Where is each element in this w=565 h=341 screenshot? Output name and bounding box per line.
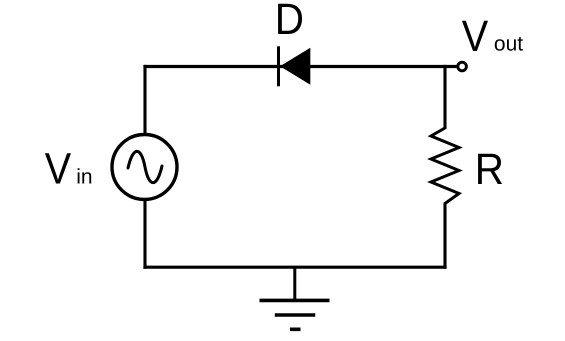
- svg-text:V: V: [462, 12, 489, 61]
- svg-text:in: in: [76, 166, 92, 189]
- resistor R: [431, 128, 459, 204]
- label Vout: [462, 12, 524, 61]
- svg-text:V: V: [45, 145, 72, 194]
- wire right vertical (resistor to bottom wire): [443, 203, 446, 269]
- wire bottom horizontal: [143, 266, 446, 269]
- wire right vertical (top junction to resistor): [443, 65, 446, 129]
- AC source V_in (circle + sine): [112, 135, 177, 200]
- svg-text:D: D: [275, 0, 304, 44]
- svg-text:out: out: [494, 33, 523, 56]
- diode D (cathode bar + triangle): [279, 46, 311, 86]
- ground: [260, 267, 330, 329]
- svg-text:R: R: [475, 145, 504, 194]
- label Vin: [45, 145, 93, 194]
- node Vout terminal: [458, 62, 467, 71]
- wire top horizontal: [143, 65, 457, 68]
- wire left vertical: [143, 65, 146, 269]
